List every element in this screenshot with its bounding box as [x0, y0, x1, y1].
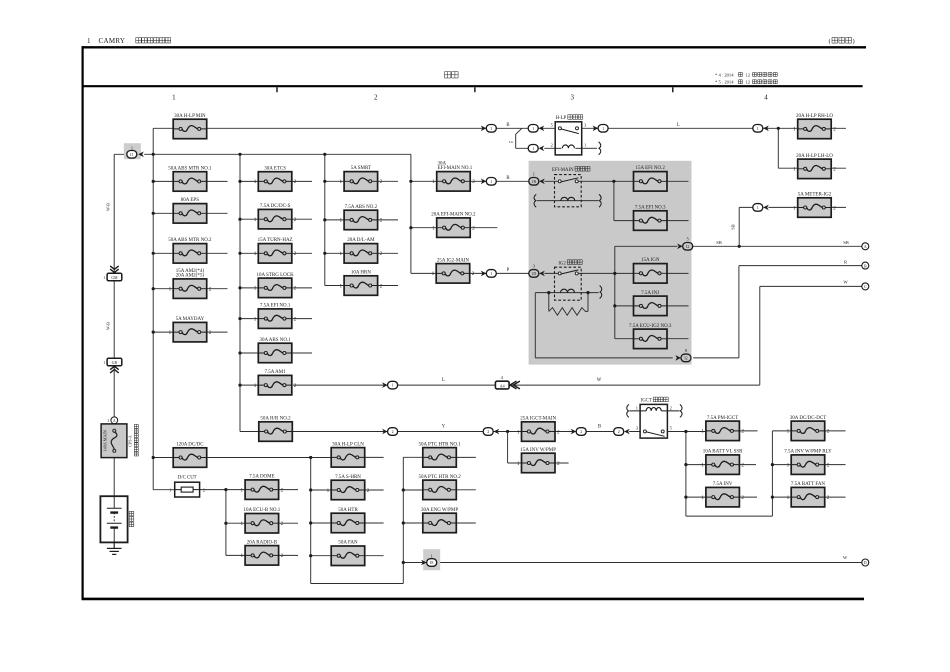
svg-text:10A HRN: 10A HRN: [351, 270, 372, 275]
svg-text:2: 2: [367, 488, 370, 494]
svg-text:2: 2: [557, 429, 560, 435]
relay IGCT: [627, 397, 682, 438]
svg-text:2: 2: [209, 330, 212, 336]
wire INV W/PMP branch: [508, 432, 569, 464]
wire label W-B upper: [106, 203, 111, 211]
svg-text:1: 1: [107, 418, 109, 423]
relay IG2 (dashed): [555, 260, 602, 300]
fuse 15A TURN-HAZ: [254, 238, 297, 263]
fuse 30A DC/DC-DCT: [787, 416, 830, 441]
svg-text:LG: LG: [509, 140, 514, 144]
svg-text:1: 1: [517, 429, 520, 435]
fuse 50A PTC HTR NO.1: [418, 442, 461, 467]
svg-text:(: (: [829, 38, 831, 45]
wire EFI-MAIN NO.1 row into relay block: [470, 180, 528, 182]
svg-text:30A ABS NO.1: 30A ABS NO.1: [259, 338, 291, 343]
svg-text:1: 1: [490, 271, 492, 276]
fuse 50A H/B NO.2: [259, 416, 293, 441]
svg-text:I1: I1: [130, 152, 133, 157]
wire R net to terminal B: [693, 266, 862, 358]
svg-text:1: 1: [636, 405, 638, 410]
svg-text:1: 1: [490, 126, 492, 131]
svg-text:SB: SB: [731, 224, 736, 229]
svg-text:2: 2: [294, 383, 297, 389]
svg-text:A: A: [864, 244, 867, 249]
fuse 30A ABS NO.1: [258, 338, 292, 363]
svg-text:7.5A ECU-IG2 NO.3: 7.5A ECU-IG2 NO.3: [629, 324, 672, 329]
svg-text:IG2: IG2: [558, 261, 566, 266]
wire label SB right: [843, 240, 849, 245]
svg-text:EFI-MAIN: EFI-MAIN: [552, 168, 574, 173]
svg-text:1: 1: [532, 146, 534, 151]
svg-text:2: 2: [380, 179, 383, 185]
fuse 7.5A ABS NO.2: [340, 205, 383, 230]
svg-text:2: 2: [833, 127, 836, 133]
svg-text:10A ECU-B NO.1: 10A ECU-B NO.1: [243, 508, 280, 513]
junction dot headlamp branch: [777, 127, 780, 130]
svg-text:25A IGCT-MAIN: 25A IGCT-MAIN: [520, 416, 556, 421]
column numbers: [172, 94, 768, 102]
svg-text:1: 1: [432, 226, 435, 232]
svg-text:10A STRG LOCK: 10A STRG LOCK: [256, 273, 294, 278]
svg-text:2: 2: [472, 271, 475, 277]
svg-text:20A H-LP LH-LO: 20A H-LP LH-LO: [796, 154, 833, 159]
svg-text:W-B: W-B: [106, 203, 111, 211]
wire label Y: [442, 425, 446, 430]
svg-text:5: 5: [687, 237, 689, 242]
svg-text:50A PTC HTR NO.2: 50A PTC HTR NO.2: [418, 475, 461, 480]
svg-text:140A MAIN: 140A MAIN: [103, 430, 108, 451]
svg-text:A: A: [113, 419, 116, 423]
fusible link D/C CUT: [169, 475, 206, 497]
resistor IG2 relay coil shunt: [549, 308, 588, 316]
wire H-LP relay pin1 stub with brace: [582, 142, 601, 155]
svg-text:1: 1: [602, 126, 604, 131]
header right "(continued next page)": [829, 37, 855, 45]
wire column3 fuse outputs: [378, 181, 398, 285]
fuse 20A H-LP LH-LO: [793, 154, 836, 179]
wire SB net to terminal A: [615, 245, 862, 247]
column ticks: [277, 87, 673, 92]
connector AM1 L row: [382, 381, 398, 389]
wire label B IGCT row: [598, 425, 601, 430]
svg-text:7.5A INV: 7.5A INV: [713, 482, 733, 487]
svg-text:1: 1: [584, 143, 586, 148]
svg-text:50A H/B NO.2: 50A H/B NO.2: [260, 416, 291, 421]
terminal C: [862, 283, 869, 290]
svg-text:50A PTC HTR NO.1: 50A PTC HTR NO.1: [418, 442, 461, 447]
svg-text:1: 1: [757, 126, 759, 131]
svg-text:1: 1: [787, 429, 790, 435]
svg-text:1: 1: [340, 251, 343, 257]
svg-text:2: 2: [741, 462, 744, 468]
svg-text:2: 2: [380, 218, 383, 224]
svg-text:1: 1: [254, 383, 257, 389]
connector I1 start (highlighted): [124, 143, 144, 159]
svg-text:50A FAN: 50A FAN: [338, 541, 358, 546]
frame top border: [82, 46, 867, 48]
wire column3 bus vertical: [325, 154, 344, 285]
ground: [107, 542, 122, 554]
svg-text:): ): [853, 38, 855, 45]
svg-text:50A ABS MTR NO.2: 50A ABS MTR NO.2: [168, 238, 212, 243]
connector IGCT feed left: [483, 428, 499, 436]
svg-text:2: 2: [580, 429, 582, 434]
wire W net to terminal C: [760, 286, 862, 385]
svg-text:1: 1: [793, 167, 796, 173]
svg-text:B: B: [864, 263, 867, 268]
svg-text:7.5A INJ: 7.5A INJ: [641, 291, 659, 296]
wire IGCT fuse output stubs: [739, 431, 845, 497]
fuse 10A STRG LOCK: [254, 273, 297, 298]
svg-text:C: C: [864, 284, 867, 289]
connector 1D into relay block IG2 (pin 3): [529, 263, 545, 277]
svg-text:CPS-A: CPS-A: [127, 435, 132, 446]
svg-text:1: 1: [793, 127, 796, 133]
svg-text:50A HTR: 50A HTR: [338, 508, 358, 513]
svg-text:SB: SB: [843, 240, 849, 245]
svg-text:15A EFI NO.2: 15A EFI NO.2: [636, 166, 666, 171]
fuse 7.5A INJ: [634, 291, 668, 316]
fuse 5A SMRT: [340, 166, 383, 191]
fuse 7.5A DOME: [241, 475, 284, 500]
svg-text:15A INV W/PMP: 15A INV W/PMP: [520, 448, 556, 453]
svg-text:7.5A DC/DC-S: 7.5A DC/DC-S: [260, 204, 291, 209]
svg-text:2: 2: [472, 226, 475, 232]
svg-text:2: 2: [294, 179, 297, 185]
svg-text:2: 2: [827, 462, 830, 468]
svg-text:1: 1: [254, 316, 257, 322]
svg-text:1: 1: [490, 179, 492, 184]
connector GB in-line: [103, 358, 122, 373]
svg-text:2: 2: [380, 251, 383, 257]
svg-text:D/C CUT: D/C CUT: [178, 475, 197, 480]
svg-text:1: 1: [254, 251, 257, 257]
wire EFI column bus vertical: [411, 154, 437, 273]
svg-text:GB: GB: [112, 361, 118, 365]
svg-text:1: 1: [169, 287, 172, 293]
connector IG2 row: [481, 270, 497, 278]
fuse 15A IGN: [634, 258, 668, 283]
fuse 30A ETCS: [254, 166, 297, 191]
svg-text:7.5A EFI NO.1: 7.5A EFI NO.1: [260, 304, 291, 309]
relay EFI-MAIN (dashed): [534, 167, 601, 208]
svg-text:2: 2: [827, 429, 830, 435]
fuse 10A HRN: [340, 270, 383, 295]
fuse 7.5A BATT FAN: [787, 482, 830, 507]
connector 1B into relay block EFI (pin 1): [529, 171, 545, 185]
svg-text:2: 2: [670, 405, 672, 410]
svg-text:W: W: [843, 555, 848, 560]
svg-text:30A DC/DC-DCT: 30A DC/DC-DCT: [790, 416, 827, 421]
terminal B: [862, 262, 869, 269]
connector before METER-IG2: [753, 204, 769, 212]
svg-text:30A ETCS: 30A ETCS: [264, 166, 286, 171]
label CPS-A battery sensor (rotated): [127, 424, 138, 456]
svg-text:W: W: [597, 378, 602, 383]
frame bottom border: [82, 598, 865, 601]
svg-text:Y: Y: [442, 425, 446, 430]
fuse 7.5A INV: [701, 482, 744, 507]
svg-text:1: 1: [532, 126, 534, 131]
junction dots EFI column bus: [409, 180, 412, 230]
svg-text:B: B: [506, 123, 509, 128]
svg-text:CAMRY: CAMRY: [99, 37, 126, 45]
frame header rule: [82, 85, 863, 87]
svg-text:5A SMRT: 5A SMRT: [351, 166, 371, 171]
svg-text:15A IGN: 15A IGN: [641, 258, 660, 263]
svg-text:1: 1: [172, 94, 176, 102]
svg-text:1: 1: [103, 275, 105, 280]
fuse 25A IGCT-MAIN: [517, 416, 560, 441]
fuse 120A DC/DC: [173, 442, 207, 467]
frame left border: [81, 46, 83, 600]
junction dot IGCT feed branch: [506, 430, 509, 433]
wire DC/DC output row: [207, 456, 384, 458]
svg-text:2: 2: [487, 429, 489, 434]
wire heater fuse outputs: [365, 457, 476, 555]
svg-text:7.5A INV W/PMP RLY: 7.5A INV W/PMP RLY: [784, 450, 832, 455]
fuse 10A ECU-B NO.1: [241, 508, 284, 533]
svg-text:1: 1: [103, 360, 105, 365]
wire heater bus vertical: [311, 457, 423, 583]
fuse 7.5A EFI NO.1: [254, 304, 297, 329]
fuse 10A BATT VL SSR: [701, 450, 744, 475]
wire column2 fuse outputs: [292, 181, 313, 353]
wire label L H-LP row: [677, 123, 680, 128]
wire IG2 relay coil circuit with resistor: [535, 293, 672, 358]
connector I2 pin 5 output: [677, 237, 693, 251]
wire H-LP MIN row to relay and headlamp fuses: [207, 128, 846, 168]
svg-text:1: 1: [431, 554, 433, 559]
wire METER-IG2 feed vertical: [739, 207, 846, 246]
connector before IGCT relay: [614, 428, 630, 436]
svg-text:2: 2: [551, 143, 553, 148]
wire W net bottom to terminal D: [403, 562, 862, 564]
svg-text:2: 2: [209, 287, 212, 293]
svg-text:A4: A4: [500, 383, 505, 388]
wire battery positive vertical feed: [114, 154, 126, 548]
svg-text:1: 1: [241, 487, 244, 493]
fuse 7.5A S-HRN: [327, 475, 370, 500]
wire AM1 output L row with A4 pass-through: [293, 384, 760, 386]
svg-text:2: 2: [392, 429, 394, 434]
svg-text:1: 1: [169, 330, 172, 336]
svg-text:2: 2: [833, 167, 836, 173]
svg-text:1: 1: [787, 462, 790, 468]
junction dot EFI relay output: [612, 180, 615, 183]
svg-text:12: 12: [746, 72, 751, 77]
svg-text:10A BATT VL SSR: 10A BATT VL SSR: [703, 450, 743, 455]
svg-text:1: 1: [533, 171, 535, 176]
svg-text:2: 2: [741, 429, 744, 435]
svg-text:W: W: [843, 279, 848, 284]
fusible link 140A MAIN: [101, 424, 127, 458]
svg-text:H-LP: H-LP: [556, 116, 567, 121]
engine room relay block shaded region: [529, 161, 692, 365]
svg-text:4: 4: [764, 94, 768, 102]
svg-text:1: 1: [432, 271, 435, 277]
svg-text:1: 1: [701, 462, 704, 468]
svg-text:20A EFI-MAIN NO.2: 20A EFI-MAIN NO.2: [431, 213, 476, 218]
wire IGCT feed row Y/B: [293, 431, 706, 433]
svg-text:B: B: [598, 425, 601, 430]
connector after H-LP relay: [593, 125, 609, 133]
svg-text:1: 1: [241, 553, 244, 559]
svg-text:2: 2: [618, 429, 620, 434]
wire IGCT output bus left column: [686, 431, 792, 516]
fuse 20A RADIO-B: [241, 540, 284, 565]
svg-text:1: 1: [757, 205, 759, 210]
svg-text:1: 1: [327, 488, 330, 494]
wire column1 bus vertical: [153, 128, 175, 489]
wire label L AM1 row: [442, 378, 445, 383]
svg-text:2: 2: [380, 283, 383, 289]
junction dots column2 bus: [238, 153, 241, 387]
svg-text:1: 1: [340, 179, 343, 185]
svg-text:1D: 1D: [531, 271, 536, 276]
fuse 30A H-LP CLN: [331, 442, 365, 467]
svg-text:1: 1: [787, 495, 790, 501]
wire label P IG2 row: [507, 268, 510, 273]
connector after IGCT-MAIN fuse: [571, 428, 587, 436]
junction dots D/C CUT bus: [224, 488, 227, 525]
svg-text:25A IG2-MAIN: 25A IG2-MAIN: [437, 258, 470, 263]
svg-text:1: 1: [392, 383, 394, 388]
production notes *4 *5: [715, 72, 777, 77]
connector H-LP relay coil row: [528, 145, 544, 153]
svg-text:12: 12: [746, 80, 751, 85]
wire label LG jog: [509, 140, 514, 144]
label battery (rotated hanzi): [129, 511, 134, 526]
wire EFI relay switch to EFI fuses: [544, 181, 688, 220]
svg-text:5A MAYDAY: 5A MAYDAY: [176, 317, 205, 322]
svg-text:1: 1: [254, 179, 257, 185]
fuse 7.5A ECU-IG2 NO.3: [629, 324, 672, 349]
fuse 7.5A DC/DC-S: [254, 204, 297, 229]
wire label B EFI row: [506, 176, 509, 181]
fuse 50A ABS MTR NO.2: [168, 238, 212, 263]
junction dot SB net: [738, 245, 741, 248]
svg-text:20A AM2(*5): 20A AM2(*5): [176, 274, 205, 279]
svg-text:8: 8: [685, 348, 687, 353]
svg-text:3: 3: [533, 263, 535, 268]
svg-text:7.5A S-HRN: 7.5A S-HRN: [335, 475, 361, 480]
svg-text:P: P: [507, 268, 510, 273]
svg-text:7.5A DOME: 7.5A DOME: [249, 475, 275, 480]
wire main bus row: [144, 153, 411, 155]
wire label SB rotated: [731, 224, 736, 229]
fuse 15A/20A AM2: [169, 269, 212, 299]
fuse 7.5A PM-IGCT: [701, 416, 744, 441]
svg-text:EFI-MAIN NO.1: EFI-MAIN NO.1: [438, 166, 473, 171]
svg-text:* 4 : 2014: * 4 : 2014: [715, 72, 734, 77]
svg-text:L: L: [677, 123, 680, 128]
wire label W bottom: [843, 555, 848, 560]
fuse 30A H-LP MIN: [173, 114, 207, 139]
svg-text:1: 1: [340, 218, 343, 224]
svg-text:80A EPS: 80A EPS: [181, 198, 199, 203]
fuse 25A IG2-MAIN: [432, 258, 475, 283]
battery terminal circle A: [107, 417, 118, 424]
fuse 7.5A INV W/PMP RLY: [784, 450, 832, 475]
wire label B H-LP row: [506, 123, 509, 128]
junction dots column3 bus: [323, 153, 326, 255]
svg-text:1: 1: [340, 283, 343, 289]
junction dot DC/DC branch: [309, 456, 312, 459]
svg-text:1: 1: [254, 286, 257, 292]
fuse 80A EPS: [173, 198, 207, 223]
svg-text:5A METER-IG2: 5A METER-IG2: [798, 192, 832, 197]
svg-text:IGCT: IGCT: [641, 399, 652, 404]
fuse 50A ABS MTR NO.1: [168, 166, 212, 191]
svg-text:I8: I8: [430, 560, 433, 565]
svg-text:20A RADIO-B: 20A RADIO-B: [247, 540, 278, 545]
connector I8 bottom W row (highlighted): [421, 549, 440, 570]
connector H-LP row before relay: [528, 125, 544, 133]
fuse 30A ENG W/PMP: [421, 508, 458, 533]
svg-text:SB: SB: [716, 240, 722, 245]
fuse 50A HTR: [331, 508, 365, 533]
connector H/B NO.2 Y row: [382, 428, 398, 436]
svg-text:D: D: [864, 560, 867, 565]
junction dots IG2 coil: [547, 291, 589, 294]
svg-text:2: 2: [294, 251, 297, 257]
svg-text:2: 2: [472, 179, 475, 185]
wire IG2-MAIN row into relay block: [470, 272, 529, 274]
svg-text:2: 2: [741, 495, 744, 501]
junction dots heater buses: [309, 488, 405, 564]
svg-text:2: 2: [833, 205, 836, 211]
wire label W upper: [843, 279, 848, 284]
svg-text:GM: GM: [111, 276, 118, 280]
terminal A: [862, 243, 869, 250]
wire column2 bus vertical: [240, 154, 259, 431]
junction dots column1 bus: [152, 153, 155, 459]
wire label SB left: [716, 240, 722, 245]
svg-text:2: 2: [557, 461, 560, 467]
svg-text:1: 1: [517, 461, 520, 467]
fuse 30A EFI-MAIN NO.1: [432, 161, 475, 191]
connector I2 pin 8 output: [675, 348, 691, 362]
title "power source": [445, 72, 459, 78]
svg-text:120A DC/DC: 120A DC/DC: [176, 442, 204, 447]
fuse 5A METER-IG2: [793, 192, 836, 217]
svg-text:50A ABS MTR NO.1: 50A ABS MTR NO.1: [168, 166, 212, 171]
svg-text:7.5A AM1: 7.5A AM1: [265, 370, 287, 375]
svg-text:3: 3: [571, 94, 575, 102]
fuse 15A INV W/PMP: [517, 448, 560, 473]
wire H-LP relay coil return jog: [516, 128, 556, 148]
svg-text:2: 2: [281, 487, 284, 493]
connector EFI row: [481, 178, 497, 186]
svg-text:20A D/L-AM: 20A D/L-AM: [347, 238, 375, 243]
svg-text:7.5A BATT FAN: 7.5A BATT FAN: [791, 482, 826, 487]
fuse 20A EFI-MAIN NO.2: [431, 213, 476, 238]
connector GM in-line: [103, 266, 122, 281]
fuse 7.5A EFI NO.3: [634, 206, 668, 231]
svg-text:1: 1: [254, 217, 257, 223]
junction dots IG2 outputs: [613, 272, 616, 308]
terminal D: [862, 559, 869, 566]
wire label W-B lower: [106, 322, 111, 330]
svg-text:20A H-LP RH-LO: 20A H-LP RH-LO: [796, 114, 833, 119]
relay H-LP (headlamp): [551, 115, 588, 155]
svg-text:2: 2: [294, 286, 297, 292]
connector A4 in-line with chevrons: [495, 375, 520, 389]
connector before headlamp fuses: [753, 125, 769, 133]
svg-text:7.5A PM-IGCT: 7.5A PM-IGCT: [707, 416, 738, 421]
